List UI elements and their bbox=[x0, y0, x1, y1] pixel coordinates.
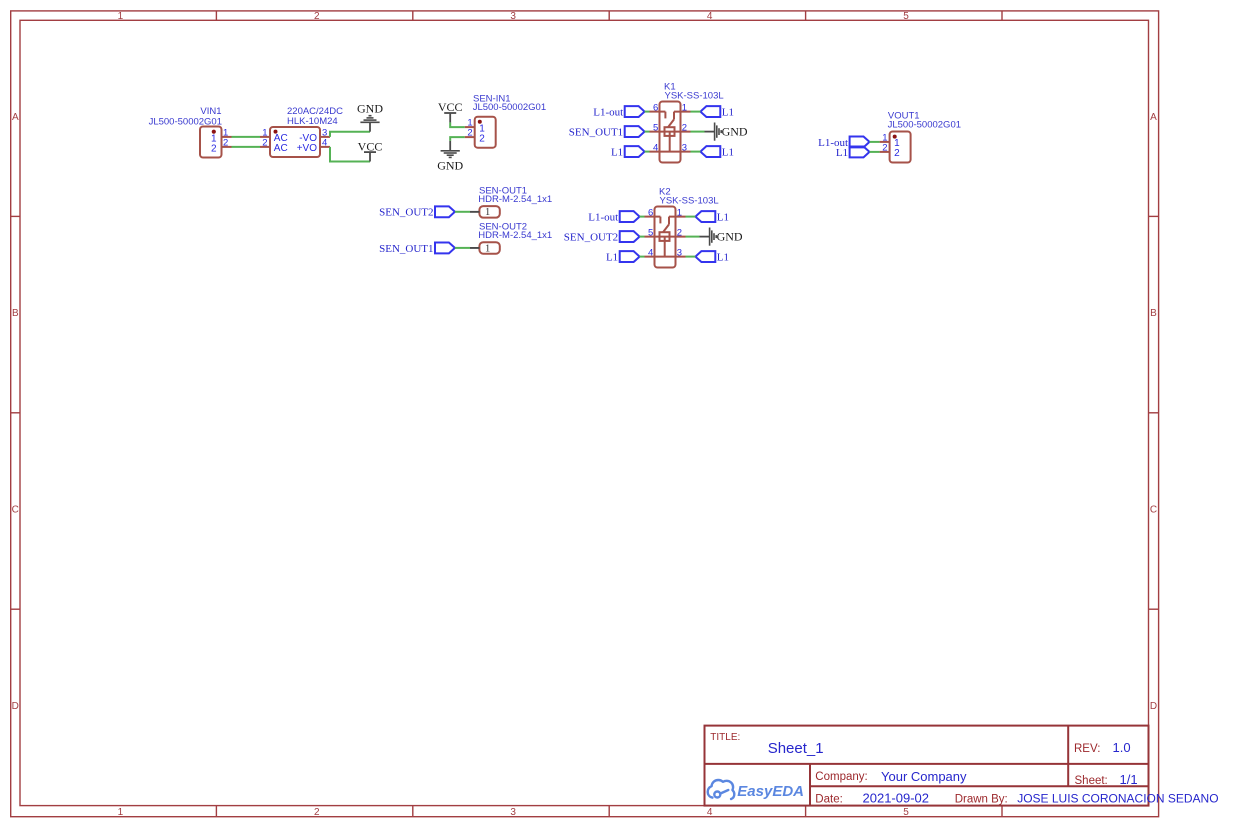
svg-text:YSK-SS-103L: YSK-SS-103L bbox=[665, 91, 724, 102]
svg-text:4: 4 bbox=[322, 137, 327, 148]
svg-text:REV:: REV: bbox=[1074, 743, 1100, 755]
svg-text:HLK-10M24: HLK-10M24 bbox=[287, 116, 338, 127]
svg-text:2: 2 bbox=[314, 807, 320, 818]
svg-text:5: 5 bbox=[903, 11, 909, 22]
svg-text:Your Company: Your Company bbox=[881, 769, 967, 784]
svg-text:1: 1 bbox=[485, 207, 490, 218]
svg-text:2021-09-02: 2021-09-02 bbox=[863, 791, 930, 806]
svg-text:2: 2 bbox=[467, 128, 472, 139]
svg-text:SEN_OUT1: SEN_OUT1 bbox=[569, 127, 623, 139]
svg-text:HDR-M-2.54_1x1: HDR-M-2.54_1x1 bbox=[478, 230, 552, 241]
svg-text:GND: GND bbox=[357, 102, 383, 116]
svg-text:SEN_OUT2: SEN_OUT2 bbox=[564, 232, 618, 244]
svg-text:L1: L1 bbox=[606, 252, 618, 264]
svg-text:2: 2 bbox=[677, 227, 682, 238]
svg-text:2: 2 bbox=[211, 144, 217, 155]
svg-text:5: 5 bbox=[653, 122, 658, 133]
svg-text:L1: L1 bbox=[722, 107, 734, 119]
svg-text:VCC: VCC bbox=[358, 139, 383, 153]
svg-text:4: 4 bbox=[707, 807, 713, 818]
svg-text:JL500-50002G01: JL500-50002G01 bbox=[149, 116, 222, 127]
svg-text:YSK-SS-103L: YSK-SS-103L bbox=[660, 196, 719, 207]
svg-text:C: C bbox=[12, 505, 19, 516]
svg-text:A: A bbox=[1150, 112, 1157, 123]
svg-text:L1: L1 bbox=[717, 212, 729, 224]
svg-text:4: 4 bbox=[653, 142, 658, 153]
svg-text:3: 3 bbox=[677, 247, 682, 258]
svg-text:4: 4 bbox=[648, 247, 653, 258]
svg-text:HDR-M-2.54_1x1: HDR-M-2.54_1x1 bbox=[478, 194, 552, 205]
svg-text:Sheet:: Sheet: bbox=[1075, 775, 1108, 787]
svg-text:SEN_OUT2: SEN_OUT2 bbox=[379, 207, 433, 219]
svg-text:1: 1 bbox=[118, 807, 124, 818]
svg-text:5: 5 bbox=[903, 807, 909, 818]
svg-text:2: 2 bbox=[262, 137, 267, 148]
svg-text:TITLE:: TITLE: bbox=[710, 732, 740, 743]
svg-text:6: 6 bbox=[653, 102, 658, 113]
svg-text:3: 3 bbox=[510, 11, 516, 22]
svg-text:VCC: VCC bbox=[438, 100, 463, 114]
svg-text:C: C bbox=[1150, 505, 1157, 516]
svg-text:Drawn By:: Drawn By: bbox=[955, 794, 1008, 806]
svg-text:1: 1 bbox=[682, 102, 687, 113]
svg-text:GND: GND bbox=[437, 159, 463, 173]
svg-text:2: 2 bbox=[894, 148, 900, 159]
svg-text:VIN1: VIN1 bbox=[200, 106, 221, 117]
svg-text:B: B bbox=[1150, 308, 1157, 319]
svg-text:JOSE LUIS CORONACION SEDANO: JOSE LUIS CORONACION SEDANO bbox=[1017, 792, 1218, 806]
svg-text:Date:: Date: bbox=[815, 794, 843, 806]
svg-text:Sheet_1: Sheet_1 bbox=[768, 740, 824, 757]
svg-text:L1-out: L1-out bbox=[593, 107, 623, 119]
svg-text:AC: AC bbox=[274, 143, 288, 154]
svg-text:5: 5 bbox=[648, 227, 653, 238]
svg-text:D: D bbox=[1150, 701, 1157, 712]
svg-text:1/1: 1/1 bbox=[1120, 772, 1138, 787]
svg-text:2: 2 bbox=[314, 11, 320, 22]
svg-text:GND: GND bbox=[717, 230, 743, 244]
svg-text:3: 3 bbox=[682, 142, 687, 153]
svg-text:JL500-50002G01: JL500-50002G01 bbox=[473, 102, 546, 113]
svg-text:L1: L1 bbox=[717, 252, 729, 264]
svg-text:6: 6 bbox=[648, 207, 653, 218]
svg-text:L1-out: L1-out bbox=[588, 212, 618, 224]
svg-text:JL500-50002G01: JL500-50002G01 bbox=[888, 119, 961, 130]
svg-text:Company:: Company: bbox=[815, 771, 867, 783]
svg-text:4: 4 bbox=[707, 11, 713, 22]
svg-text:D: D bbox=[12, 701, 19, 712]
svg-text:L1: L1 bbox=[836, 147, 848, 159]
svg-text:GND: GND bbox=[722, 125, 748, 139]
svg-text:1: 1 bbox=[118, 11, 124, 22]
svg-text:1: 1 bbox=[485, 243, 490, 254]
svg-text:L1: L1 bbox=[611, 147, 623, 159]
svg-text:SEN_OUT1: SEN_OUT1 bbox=[379, 243, 433, 255]
svg-text:3: 3 bbox=[510, 807, 516, 818]
svg-text:EasyEDA: EasyEDA bbox=[737, 783, 804, 800]
svg-text:1.0: 1.0 bbox=[1113, 740, 1131, 755]
svg-text:2: 2 bbox=[882, 142, 887, 153]
svg-text:A: A bbox=[12, 112, 19, 123]
svg-text:2: 2 bbox=[479, 133, 485, 144]
svg-text:1: 1 bbox=[677, 207, 682, 218]
svg-text:2: 2 bbox=[682, 122, 687, 133]
svg-text:B: B bbox=[12, 308, 19, 319]
svg-text:2: 2 bbox=[223, 137, 228, 148]
svg-text:L1: L1 bbox=[722, 147, 734, 159]
svg-text:+VO: +VO bbox=[297, 143, 318, 154]
